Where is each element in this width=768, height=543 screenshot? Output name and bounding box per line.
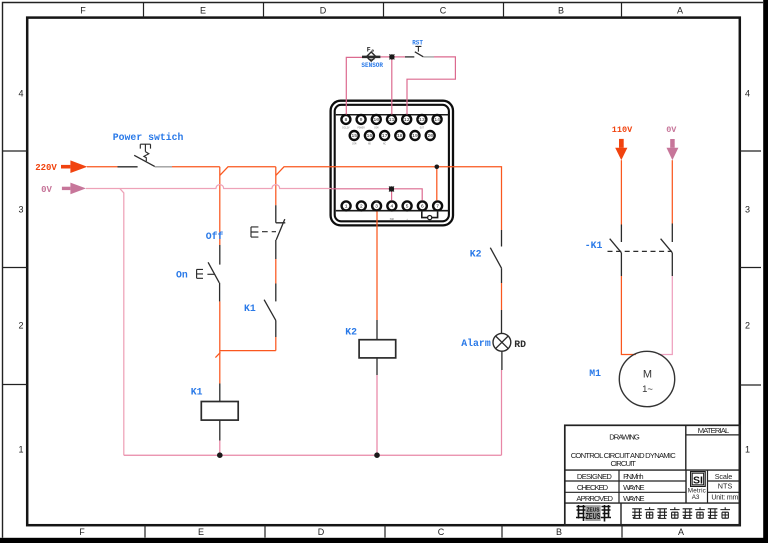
svg-text:DRAWING: DRAWING bbox=[609, 432, 640, 441]
svg-text:E: E bbox=[200, 5, 206, 15]
svg-text:7: 7 bbox=[436, 204, 439, 210]
svg-text:Unit: mm: Unit: mm bbox=[711, 495, 738, 502]
svg-text:WAYNE: WAYNE bbox=[623, 483, 645, 492]
svg-text:5: 5 bbox=[406, 204, 409, 210]
svg-text:POWER: POWER bbox=[358, 127, 366, 130]
svg-text:K2: K2 bbox=[345, 327, 357, 338]
svg-text:6: 6 bbox=[421, 204, 424, 210]
svg-text:2: 2 bbox=[360, 204, 363, 210]
svg-text:Off: Off bbox=[206, 231, 224, 242]
svg-text:15: 15 bbox=[351, 133, 357, 139]
svg-text:11: 11 bbox=[389, 117, 395, 123]
svg-text:A: A bbox=[678, 527, 684, 537]
svg-text:2: 2 bbox=[18, 321, 23, 331]
svg-text:K1: K1 bbox=[191, 386, 203, 397]
svg-text:4: 4 bbox=[745, 89, 750, 99]
svg-text:APRROVED: APRROVED bbox=[576, 494, 613, 503]
svg-text:PWR: PWR bbox=[390, 218, 395, 221]
svg-text:18: 18 bbox=[397, 133, 403, 139]
svg-text:0V: 0V bbox=[41, 185, 52, 195]
svg-text:F: F bbox=[80, 5, 86, 15]
svg-text:Power swtich: Power swtich bbox=[113, 132, 184, 143]
svg-text:K1: K1 bbox=[244, 303, 256, 314]
svg-text:3: 3 bbox=[375, 204, 378, 210]
svg-text:3: 3 bbox=[745, 205, 750, 215]
svg-text:DC12V: DC12V bbox=[342, 127, 350, 130]
svg-text:B: B bbox=[556, 527, 562, 537]
svg-text:2: 2 bbox=[745, 321, 750, 331]
svg-text:3: 3 bbox=[18, 205, 23, 215]
svg-text:10: 10 bbox=[373, 117, 379, 123]
svg-text:8: 8 bbox=[344, 117, 347, 123]
svg-text:F: F bbox=[367, 46, 371, 53]
svg-text:MATERIAL: MATERIAL bbox=[698, 426, 730, 435]
svg-text:D: D bbox=[318, 527, 325, 537]
svg-text:1: 1 bbox=[745, 445, 750, 455]
svg-text:B: B bbox=[558, 5, 564, 15]
svg-text:OUT: OUT bbox=[420, 127, 425, 130]
svg-text:F: F bbox=[79, 527, 85, 537]
svg-text:4: 4 bbox=[390, 204, 393, 210]
svg-text:110V: 110V bbox=[612, 125, 633, 135]
svg-text:-K1: -K1 bbox=[585, 240, 603, 251]
svg-text:12: 12 bbox=[404, 117, 410, 123]
svg-text:SI: SI bbox=[693, 475, 703, 487]
svg-text:E: E bbox=[198, 527, 204, 537]
svg-text:COM: COM bbox=[374, 127, 379, 130]
svg-text:SENSOR: SENSOR bbox=[361, 62, 383, 69]
svg-text:ZEUS: ZEUS bbox=[586, 512, 601, 521]
svg-text:D: D bbox=[320, 5, 327, 15]
svg-text:13: 13 bbox=[419, 117, 425, 123]
svg-text:14: 14 bbox=[434, 117, 440, 123]
svg-text:DESIGNED: DESIGNED bbox=[577, 472, 613, 481]
svg-text:20: 20 bbox=[427, 133, 433, 139]
svg-text:M1: M1 bbox=[589, 368, 601, 379]
svg-text:9: 9 bbox=[360, 117, 363, 123]
svg-text:0V: 0V bbox=[666, 125, 677, 135]
svg-text:CIRCUIT: CIRCUIT bbox=[610, 459, 636, 468]
svg-text:NTS: NTS bbox=[718, 481, 733, 490]
svg-text:1: 1 bbox=[345, 204, 348, 210]
svg-text:Scale: Scale bbox=[715, 472, 733, 481]
svg-text:P.N.Minh: P.N.Minh bbox=[623, 472, 644, 481]
svg-text:C: C bbox=[440, 5, 447, 15]
svg-text:19: 19 bbox=[412, 133, 418, 139]
svg-text:Alarm: Alarm bbox=[461, 338, 491, 349]
svg-text:M: M bbox=[643, 369, 652, 381]
svg-text:17: 17 bbox=[382, 133, 388, 139]
svg-text:RST: RST bbox=[412, 40, 423, 47]
svg-text:COM: COM bbox=[352, 143, 357, 146]
svg-text:A: A bbox=[677, 5, 683, 15]
svg-text:On: On bbox=[176, 269, 188, 280]
svg-text:1~: 1~ bbox=[642, 384, 653, 395]
svg-text:16: 16 bbox=[367, 133, 373, 139]
svg-text:220V: 220V bbox=[35, 163, 57, 173]
svg-text:RD: RD bbox=[514, 339, 526, 350]
svg-text:e: e bbox=[371, 49, 374, 54]
svg-text:4: 4 bbox=[18, 89, 23, 99]
svg-text:1: 1 bbox=[18, 445, 23, 455]
svg-text:K2: K2 bbox=[470, 248, 482, 259]
svg-text:CHECKED: CHECKED bbox=[577, 483, 609, 492]
svg-text:A3: A3 bbox=[692, 494, 700, 501]
svg-text:WAYNE: WAYNE bbox=[623, 494, 645, 503]
svg-text:C: C bbox=[438, 527, 445, 537]
